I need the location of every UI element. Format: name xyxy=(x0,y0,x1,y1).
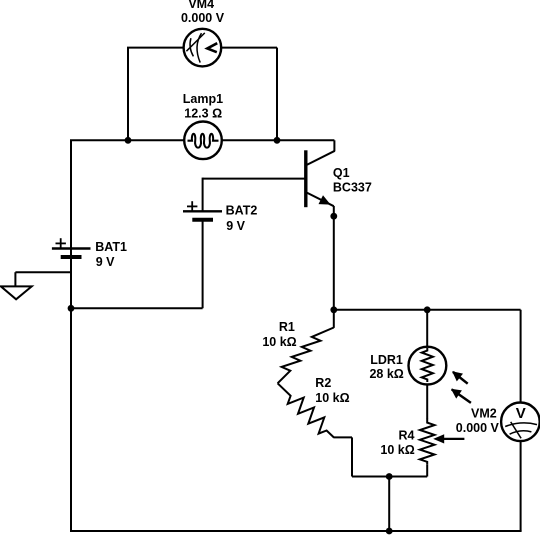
node junction xyxy=(386,528,393,535)
svg-text:10 kΩ: 10 kΩ xyxy=(380,443,414,457)
svg-text:0.000 V: 0.000 V xyxy=(181,11,225,25)
node junction xyxy=(68,305,75,312)
svg-text:10 kΩ: 10 kΩ xyxy=(262,335,296,349)
wire xyxy=(70,530,522,532)
resistor R2 xyxy=(278,383,334,437)
voltmeter VM4 xyxy=(184,29,222,67)
wire xyxy=(276,48,278,141)
resistor R1 xyxy=(333,309,335,328)
wire xyxy=(71,307,203,309)
wire xyxy=(202,220,204,308)
svg-text:10 kΩ: 10 kΩ xyxy=(315,391,349,405)
potentiometer R4 xyxy=(420,418,435,464)
wire xyxy=(334,309,521,311)
wire xyxy=(333,436,352,438)
light arrow xyxy=(452,389,471,403)
wire xyxy=(333,206,335,310)
svg-text:VM4: VM4 xyxy=(188,0,214,11)
svg-text:R1: R1 xyxy=(279,320,295,334)
node junction xyxy=(330,213,337,220)
svg-text:R4: R4 xyxy=(399,428,415,442)
wire xyxy=(70,140,72,531)
wire xyxy=(426,310,428,348)
wiper arrow xyxy=(444,438,464,440)
svg-text:28 kΩ: 28 kΩ xyxy=(369,367,403,381)
svg-text:12.3 Ω: 12.3 Ω xyxy=(184,106,222,120)
battery BAT1 xyxy=(52,247,91,249)
wire xyxy=(352,476,427,478)
svg-text:BC337: BC337 xyxy=(333,181,372,195)
svg-text:Q1: Q1 xyxy=(333,166,350,180)
svg-text:Lamp1: Lamp1 xyxy=(183,92,223,106)
svg-text:VM2: VM2 xyxy=(471,406,497,420)
wire xyxy=(351,437,353,476)
voltmeter VM2 xyxy=(501,403,540,442)
svg-text:0.000 V: 0.000 V xyxy=(456,421,500,435)
lamp Lamp1 xyxy=(184,122,222,160)
wire xyxy=(202,178,204,212)
svg-text:9 V: 9 V xyxy=(96,255,115,269)
svg-text:LDR1: LDR1 xyxy=(370,353,403,367)
battery BAT2 xyxy=(183,210,222,212)
node junction xyxy=(125,137,132,144)
svg-text:R2: R2 xyxy=(315,376,331,390)
ground xyxy=(15,271,71,273)
svg-text:BAT2: BAT2 xyxy=(226,204,258,218)
transistor Q1 xyxy=(333,140,335,151)
wire xyxy=(127,48,129,141)
svg-text:V: V xyxy=(516,405,526,422)
wire xyxy=(127,47,277,49)
wire xyxy=(388,477,390,532)
node junction xyxy=(274,137,281,144)
svg-text:9 V: 9 V xyxy=(226,219,245,233)
LDR LDR1 xyxy=(409,347,447,385)
node junction xyxy=(330,306,337,313)
wire xyxy=(520,310,522,531)
wire xyxy=(203,178,305,180)
node junction xyxy=(386,473,393,480)
light arrow xyxy=(453,372,468,384)
wire xyxy=(426,384,428,419)
svg-text:BAT1: BAT1 xyxy=(95,240,127,254)
node junction xyxy=(424,306,431,313)
wire xyxy=(70,139,334,141)
